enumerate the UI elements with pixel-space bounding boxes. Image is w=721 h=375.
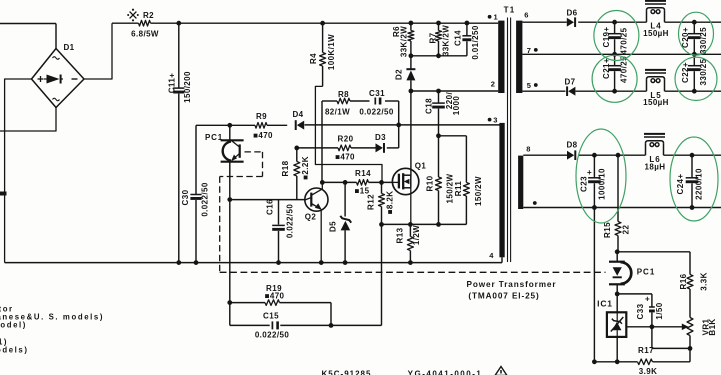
node: R15 top [616, 153, 621, 158]
wire: ref to VR1 bottom [651, 327, 653, 349]
node: snubber junction [396, 123, 401, 128]
svg-text:Q2: Q2 [305, 213, 317, 222]
svg-text:R12: R12 [367, 194, 376, 210]
diode D8 [567, 151, 574, 160]
svg-text:K5C-91285: K5C-91285 [322, 370, 372, 375]
svg-text:D5: D5 [329, 221, 338, 232]
svg-text:D1: D1 [63, 43, 74, 52]
svg-text:IC1: IC1 [597, 299, 613, 309]
node: R12 top [379, 180, 384, 185]
svg-text:R7: R7 [429, 32, 438, 43]
svg-text:150µH: 150µH [643, 98, 669, 107]
wire: AC input top-left [0, 23, 56, 25]
node: C16 bottom [276, 260, 281, 265]
svg-text:8: 8 [526, 145, 531, 154]
edge mark [0, 192, 7, 196]
svg-text:1000/10: 1000/10 [598, 168, 607, 200]
svg-text:150µH: 150µH [643, 29, 669, 38]
diode D6 [567, 18, 574, 27]
shunt regulator IC1 [616, 294, 618, 312]
svg-text:C22+: C22+ [681, 62, 690, 83]
node: Q2 emitter / bottom rail [319, 260, 324, 265]
wire: pin7 rail [522, 53, 721, 55]
node: LED top [615, 249, 620, 254]
highlight ellipse C22 [675, 57, 717, 100]
wire: pin8 rail [523, 154, 567, 156]
svg-text:R16: R16 [679, 273, 688, 289]
svg-text:■470: ■470 [265, 292, 285, 301]
symbol fusible-mark for R2 [130, 12, 137, 19]
node: R7 bottom [436, 53, 441, 58]
resistor R15 [617, 155, 619, 221]
highlight ellipse C19 [594, 11, 639, 61]
wire: R10/R11 top join [439, 135, 467, 137]
svg-text:18µH: 18µH [645, 163, 666, 172]
wire: R17 line [594, 361, 637, 363]
wire: R6/R7/C14 bottom join [411, 55, 467, 57]
node: top rail / R7 [436, 21, 441, 26]
resistor R9 [255, 123, 267, 129]
resistor R20 [338, 145, 351, 151]
node: top rail / R4 [320, 21, 325, 26]
svg-text:150/2W: 150/2W [474, 176, 483, 206]
resistor R18 [296, 148, 298, 162]
capacitor C24 [691, 155, 693, 177]
svg-text:5: 5 [527, 81, 532, 90]
node: C11 bottom [176, 260, 181, 265]
wire: pin6 rail [522, 21, 566, 23]
svg-text:R13: R13 [396, 227, 405, 243]
svg-text:C33: C33 [636, 303, 645, 319]
svg-text:D4: D4 [292, 110, 303, 119]
wire: C15 to source node [331, 324, 382, 326]
node: C24 top [690, 153, 695, 158]
node: R12 bottom [379, 222, 384, 227]
resistor R8 [337, 98, 350, 104]
capacitor C19 [614, 22, 616, 33]
svg-text:R11: R11 [454, 181, 463, 197]
transistor Q2 [305, 188, 328, 211]
highlight ellipse C21 [592, 55, 637, 102]
node: R13 bottom [408, 260, 413, 265]
wire: gate line [322, 181, 356, 183]
node: R10/R11 top [436, 133, 441, 138]
wire: bridge ~ bottom to left edge [0, 108, 56, 132]
svg-text:R2: R2 [143, 11, 154, 20]
svg-text:0.01/250: 0.01/250 [471, 25, 480, 59]
node: C22 bottom [692, 89, 697, 94]
svg-text:1/2W: 1/2W [412, 225, 421, 245]
node: Q2 collector / gate line [320, 180, 325, 185]
capacitor C18 [438, 91, 440, 103]
svg-text:0.022/50: 0.022/50 [359, 108, 393, 117]
resistor R4 [322, 23, 324, 52]
svg-text:1000: 1000 [452, 96, 461, 116]
node: C30 bottom [194, 260, 199, 265]
resistor R12 [381, 182, 383, 193]
resistor R11 [465, 136, 467, 183]
node: C23 bottom [592, 205, 597, 210]
zener D5 [344, 182, 346, 216]
node: IC1 anode [615, 359, 620, 364]
svg-text:R9: R9 [256, 112, 267, 121]
svg-text:100K/1W: 100K/1W [327, 34, 336, 70]
wire: source line [382, 223, 439, 225]
svg-text:3.9K: 3.9K [639, 367, 658, 375]
diode D3 [376, 143, 383, 152]
wire: pin5 rail [522, 90, 565, 92]
resistor R10 [438, 136, 440, 177]
wire: R20/D3 line [297, 147, 338, 149]
capacitor C22 [693, 54, 695, 65]
svg-text:4: 4 [489, 251, 494, 260]
capacitor C14 [466, 23, 468, 35]
svg-text:R17: R17 [638, 346, 654, 355]
svg-text:■470: ■470 [253, 131, 273, 140]
svg-text:PC1: PC1 [205, 133, 223, 142]
resistor R7 [438, 23, 440, 30]
lower secondary dot [533, 201, 537, 205]
svg-text:330/25: 330/25 [699, 58, 708, 85]
svg-text:YG-4041-000-1: YG-4041-000-1 [408, 370, 483, 375]
inductor L5 [645, 69, 666, 71]
node: C19 bottom [612, 52, 617, 57]
resistor R16 [687, 275, 693, 290]
svg-text:D6: D6 [566, 9, 577, 18]
svg-text:(TMA007 EI-25): (TMA007 EI-25) [468, 292, 539, 301]
node: C33 bottom [650, 324, 655, 329]
capacitor C21 [614, 54, 616, 65]
svg-text:■8.2K: ■8.2K [386, 191, 395, 215]
inductor L6 [644, 133, 665, 135]
svg-text:C30: C30 [181, 189, 190, 205]
wiper arrow [682, 324, 689, 331]
svg-text:C19+: C19+ [602, 27, 611, 48]
svg-text:D7: D7 [564, 78, 575, 87]
svg-text:22: 22 [622, 225, 631, 235]
diode D7 [568, 87, 575, 96]
wire: bridge - up to R2 [84, 23, 112, 79]
svg-text:D2: D2 [395, 69, 404, 80]
transistor Q1 [392, 168, 418, 194]
node: D2 / pin2 rail [409, 89, 414, 94]
capacitor C31 [374, 98, 376, 105]
resistor R13 [409, 224, 411, 236]
svg-text:C23: C23 [580, 176, 589, 192]
wire: ref line [626, 326, 682, 328]
node: Q2 base line left [227, 197, 232, 202]
transformer T1 core [507, 18, 509, 263]
svg-text:1/50: 1/50 [655, 302, 664, 319]
svg-text:C16: C16 [266, 199, 275, 215]
node: C23 top [592, 153, 597, 158]
svg-text:Power Transformer: Power Transformer [467, 280, 557, 289]
wire: pin 2 rail [411, 90, 498, 92]
capacitor C15 [229, 303, 231, 326]
wire: R8 branch [322, 100, 337, 102]
wire: bridge + to left/bottom [5, 79, 32, 263]
svg-text:■470: ■470 [335, 153, 355, 162]
node: R6 bottom [409, 53, 414, 58]
svg-text:R15: R15 [603, 222, 612, 238]
svg-text:3: 3 [493, 116, 498, 125]
svg-text:+: + [587, 168, 592, 177]
capacitor C16 [278, 200, 280, 225]
node: R18 top [294, 146, 299, 151]
svg-text:R14: R14 [355, 169, 371, 178]
inductor L4 [645, 0, 666, 2]
node: R19 left [227, 300, 232, 305]
node: top rail / R6 [409, 21, 414, 26]
node: C19 top [612, 20, 617, 25]
svg-text:Q1: Q1 [415, 162, 427, 171]
svg-text:82/1W: 82/1W [325, 108, 350, 117]
wire: R4 jog to gate node [315, 86, 382, 182]
node: D5 top [343, 180, 348, 185]
svg-text:C31: C31 [369, 89, 385, 98]
svg-text:330/25: 330/25 [699, 27, 708, 54]
node: top rail / C14 [465, 21, 470, 26]
wire: Q2 base line [230, 199, 305, 201]
resistor R14 [357, 180, 369, 186]
wire: lower secondary return [523, 207, 721, 209]
svg-text:odels): odels) [0, 346, 29, 355]
pin 3 dot [488, 118, 492, 122]
transformer T1 secondary winding 6-5 [516, 21, 522, 93]
svg-text:T1: T1 [504, 6, 516, 15]
node: LED cathode [615, 292, 620, 297]
node: ground drop bottom [592, 359, 597, 364]
highlight ellipse C24 [670, 137, 718, 221]
transformer T1 primary winding 1-2 [498, 21, 504, 93]
node: PC1 collector junction [227, 123, 232, 128]
wire: R16 feed [617, 251, 690, 253]
capacitor C33 [651, 294, 653, 307]
highlight ellipse C23 [576, 129, 626, 223]
node: C20 bottom [692, 52, 697, 57]
wire: top rail [112, 22, 139, 24]
svg-text:3.3K: 3.3K [700, 272, 709, 291]
wire: bottom rail [5, 262, 502, 264]
svg-text:C24+: C24+ [676, 174, 685, 195]
warning triangle [495, 367, 507, 375]
svg-text:C21+: C21+ [602, 58, 611, 79]
capacitor C23 [593, 155, 595, 177]
svg-text:C18: C18 [425, 98, 434, 114]
node: C24 bottom [690, 205, 695, 210]
svg-text:D3: D3 [375, 133, 386, 142]
node: C21 bottom [612, 89, 617, 94]
svg-text:nodel): nodel) [0, 321, 27, 330]
transformer T1 secondary winding 8 [518, 156, 523, 209]
optocoupler PC1 LED [616, 252, 618, 262]
svg-text:R4: R4 [309, 53, 318, 64]
node: top rail / C11 [176, 21, 181, 26]
node: VR1 bottom [688, 346, 693, 351]
wire: regulator ground drop [593, 208, 595, 362]
svg-text:R10: R10 [426, 175, 435, 191]
svg-text:■2.2K: ■2.2K [301, 156, 310, 180]
capacitor C20 [693, 22, 695, 33]
svg-text:B1K: B1K [708, 318, 717, 335]
svg-text:33K/2W: 33K/2W [442, 25, 451, 56]
resistor R6 [410, 23, 412, 30]
resistor R2 [139, 20, 151, 26]
svg-text:R8: R8 [338, 90, 349, 99]
node: C15 right [329, 323, 334, 328]
pin 7 dot [534, 48, 538, 52]
svg-text:C20+: C20+ [681, 27, 690, 48]
svg-text:C15: C15 [263, 312, 279, 321]
bridge rectifier D1 [32, 49, 85, 108]
svg-text:2: 2 [491, 80, 496, 89]
wire: to C33 [617, 293, 652, 295]
diode D4 [297, 121, 304, 130]
capacitor C30 [195, 125, 197, 194]
svg-text:R18: R18 [281, 160, 290, 176]
svg-text:6: 6 [524, 11, 529, 20]
transformer T1 primary winding 3-4 [499, 123, 504, 257]
node: C20 top [692, 20, 697, 25]
svg-text:C11+: C11+ [168, 73, 177, 94]
svg-text:6.8/5W: 6.8/5W [131, 30, 159, 39]
svg-text:2200/10: 2200/10 [695, 168, 704, 200]
wire: R19 branch drop [229, 200, 231, 303]
capacitor C11 [178, 23, 180, 88]
svg-text:PC1: PC1 [637, 268, 656, 277]
dashed link PC1 [245, 151, 263, 153]
svg-text:0.022/50: 0.022/50 [201, 182, 210, 216]
svg-text:33K/2W: 33K/2W [400, 26, 409, 57]
svg-text:470/25: 470/25 [620, 27, 629, 54]
svg-text:0.022/50: 0.022/50 [286, 204, 295, 238]
node: R10 bottom [436, 222, 441, 227]
pin 1 dot [488, 15, 492, 19]
svg-text:C14: C14 [454, 30, 463, 46]
potentiometer VR1 [687, 318, 693, 336]
svg-text:R20: R20 [338, 135, 354, 144]
wire: R9/D4/pin3 rail [196, 124, 255, 126]
wire: drain line [410, 91, 412, 176]
svg-text:+: + [645, 295, 650, 304]
node: pin2 rail / C18 [436, 89, 441, 94]
node: D5 bottom [343, 260, 348, 265]
svg-text:D8: D8 [566, 141, 577, 150]
resistor R19 [230, 302, 265, 304]
svg-text:150/200: 150/200 [183, 71, 192, 103]
svg-text:0.022/50: 0.022/50 [255, 331, 289, 340]
node: Q1 source / R13 top [408, 222, 413, 227]
optocoupler PC1 phototransistor [229, 125, 231, 139]
diode D2 [410, 56, 412, 69]
resistor R17 [638, 359, 653, 365]
svg-text:1: 1 [494, 13, 499, 22]
highlight ellipse C20 [679, 12, 714, 55]
pin 5 dot [534, 83, 538, 87]
